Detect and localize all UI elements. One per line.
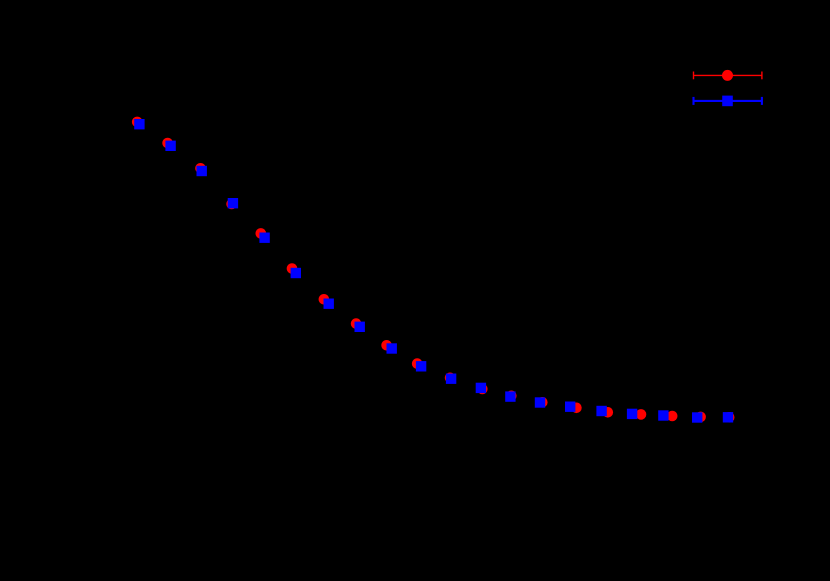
red data series (circles, drawn beneath) [132,117,735,423]
legend: red errorbar entry [694,72,762,80]
blue data series (squares, drawn on top) [134,119,733,423]
legend: blue errorbar entry [694,97,762,105]
